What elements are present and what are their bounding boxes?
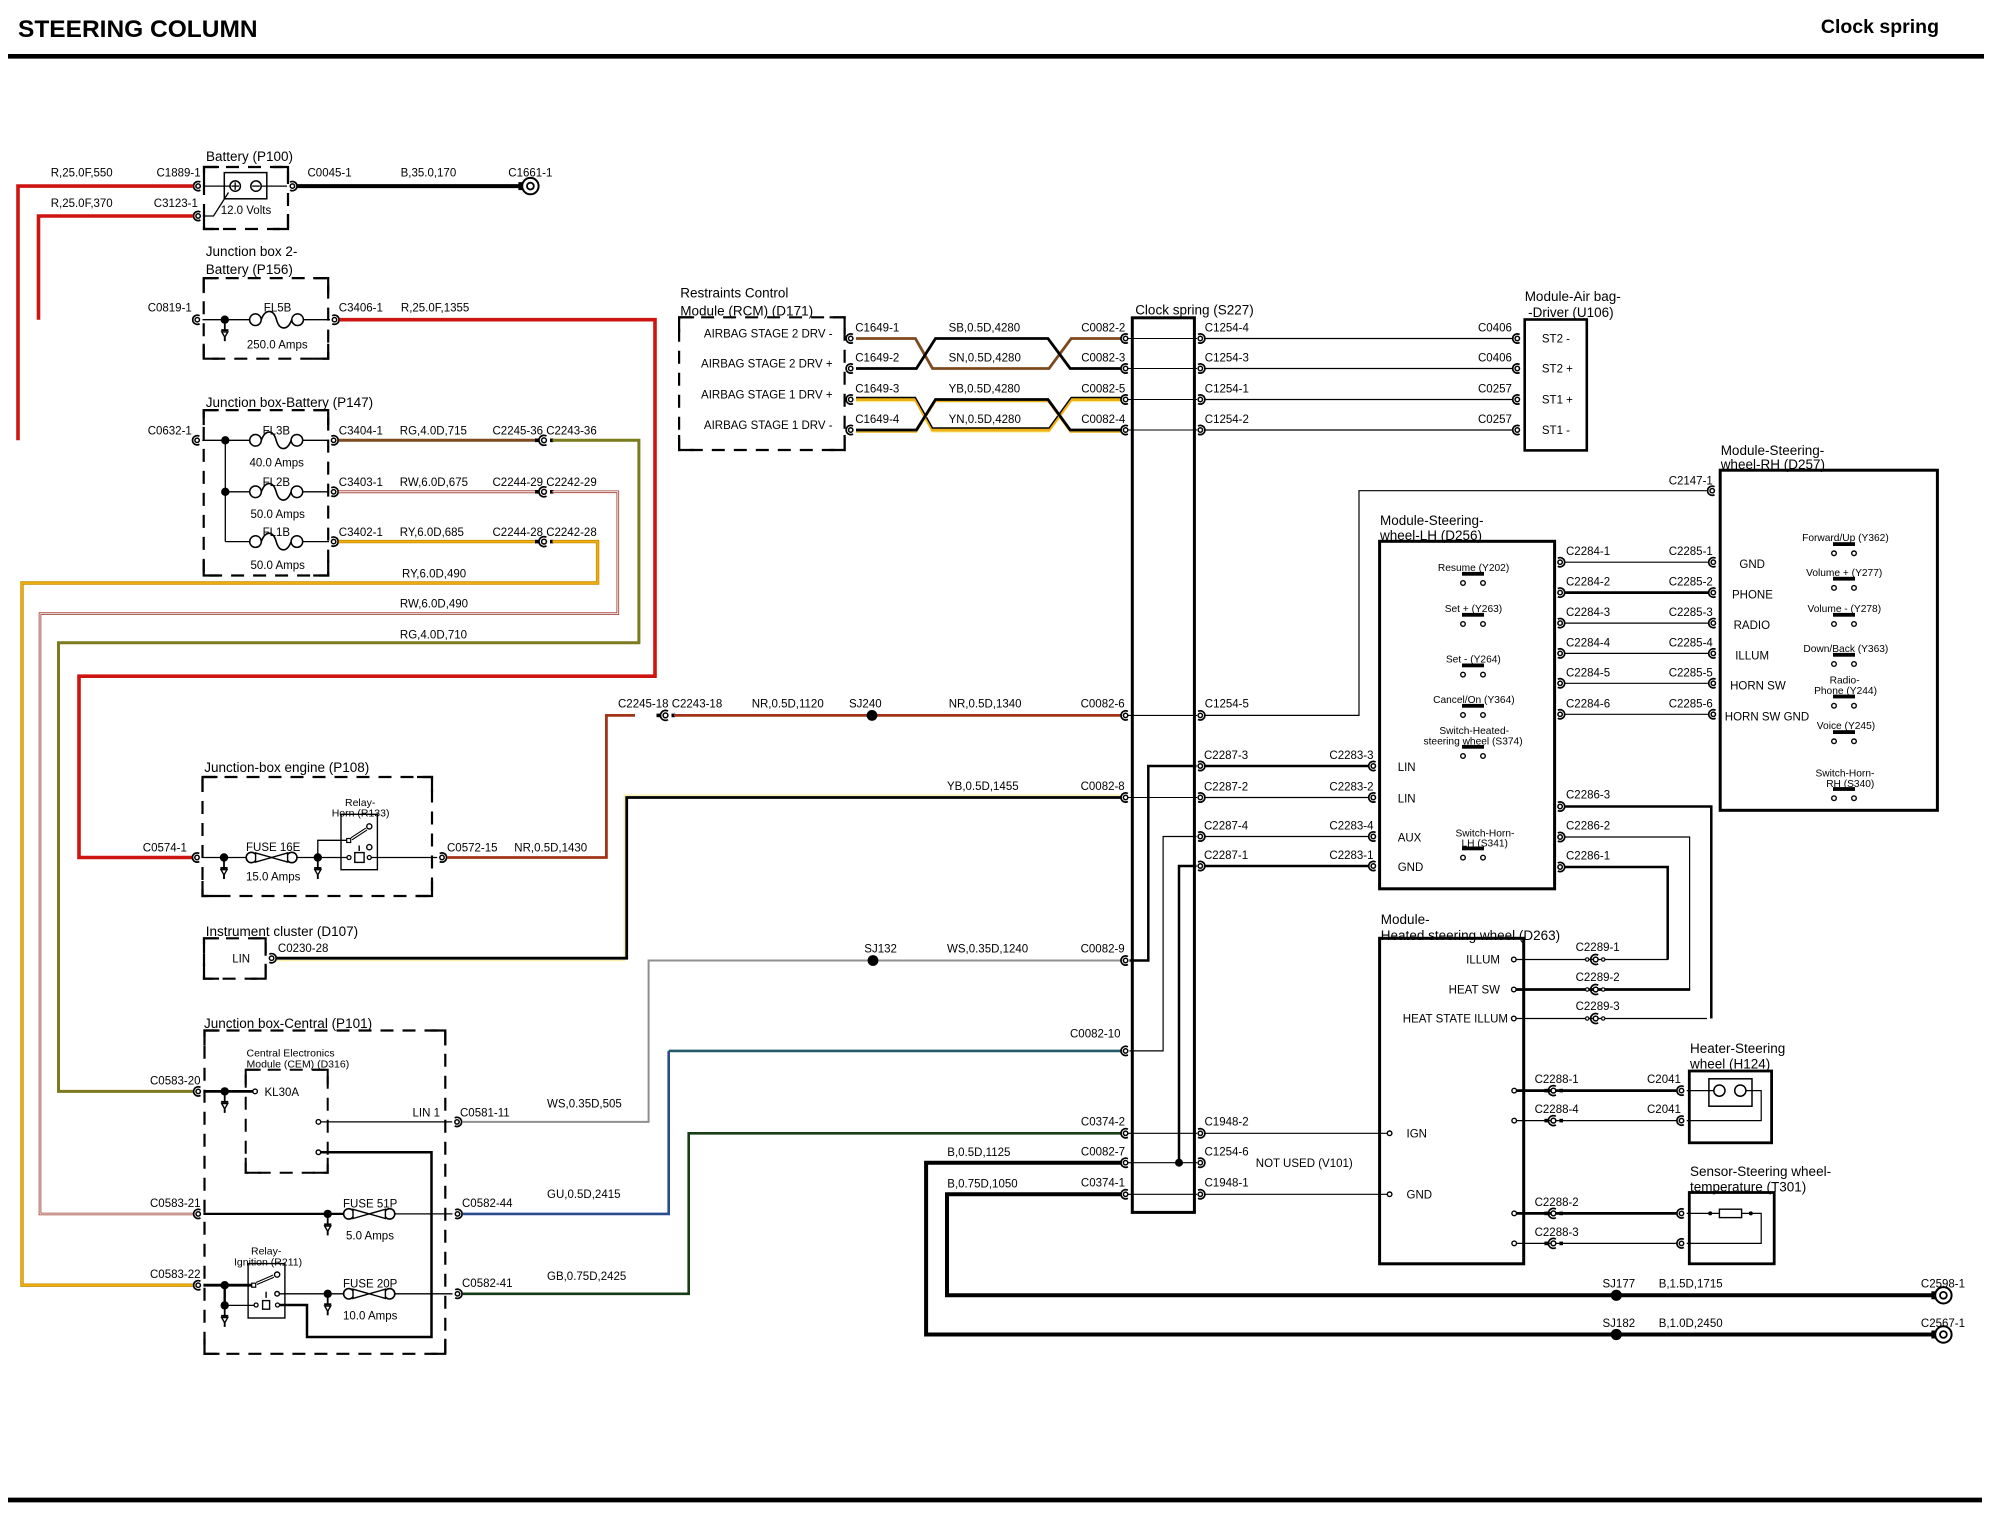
wire C1948-1 to GND	[1206, 1193, 1388, 1195]
svg-text:C1254-6: C1254-6	[1205, 1147, 1249, 1159]
connector C2284-4	[1558, 651, 1562, 655]
module D257 box	[1720, 470, 1937, 810]
inline connector C2289-2	[1586, 988, 1589, 991]
svg-text:C0082-9: C0082-9	[1081, 944, 1125, 956]
svg-text:HORN SW GND: HORN SW GND	[1725, 711, 1809, 723]
wire B,0.75D,1050 to SJ177	[947, 1194, 1932, 1295]
wire RG,4.0D,710 olive loop to C0583-20	[59, 440, 639, 1091]
wire R,25.0F,1355	[79, 320, 655, 858]
svg-text:AUX: AUX	[1398, 833, 1422, 845]
svg-text:NR,0.5D,1120: NR,0.5D,1120	[752, 699, 824, 711]
connector C2283-1	[1371, 864, 1375, 868]
svg-text:HEAT SW: HEAT SW	[1449, 985, 1500, 997]
wire C2286-2 to heat sw	[1565, 837, 1689, 990]
svg-text:C1254-5: C1254-5	[1205, 699, 1249, 711]
connector C0582-41	[455, 1292, 459, 1296]
relay-ignition R211	[248, 1264, 285, 1318]
connector C2283-2	[1371, 795, 1375, 799]
clock spring internal wire	[1128, 368, 1197, 370]
svg-text:C2288-4: C2288-4	[1535, 1104, 1580, 1116]
connector C2284-1	[1558, 560, 1562, 564]
connector C1649-2	[849, 366, 853, 370]
svg-text:15.0 Amps: 15.0 Amps	[246, 872, 301, 884]
junction box P101 dashed box	[205, 1031, 446, 1354]
svg-text:GND: GND	[1739, 559, 1765, 571]
svg-text:NR,0.5D,1430: NR,0.5D,1430	[514, 843, 587, 855]
svg-text:10.0 Amps: 10.0 Amps	[343, 1311, 398, 1323]
svg-text:Restraints Control: Restraints Control	[680, 286, 788, 301]
junction box P108 dashed box	[203, 777, 433, 896]
splice P147 bus top	[221, 436, 229, 444]
wire C2284-2 to C2285-2	[1565, 591, 1708, 594]
wire C2287-3 to C2283-3	[1206, 765, 1369, 768]
module D256 box	[1380, 541, 1555, 889]
connector C0374-2	[1123, 1131, 1127, 1135]
svg-text:C0082-6: C0082-6	[1081, 699, 1125, 711]
svg-text:Heated steering wheel (D263): Heated steering wheel (D263)	[1381, 928, 1560, 943]
connector C3403-1	[331, 490, 335, 494]
ground after FUSE 16E	[317, 858, 319, 869]
svg-text:LIN: LIN	[1398, 794, 1416, 806]
wire GB,0.75D,2425 green	[463, 1133, 1121, 1294]
connector C2285-5	[1711, 681, 1715, 685]
P147 internal bus	[224, 440, 226, 541]
svg-text:PHONE: PHONE	[1732, 590, 1773, 602]
wire HEAT STATE ILLUM to C2289-3	[1516, 1018, 1707, 1020]
svg-text:C2285-4: C2285-4	[1669, 637, 1714, 649]
wire battery sense C3123-1 to plus	[203, 193, 229, 217]
svg-text:SB,0.5D,4280: SB,0.5D,4280	[949, 323, 1021, 335]
fuse FUSE 16E 15.0 Amps	[246, 852, 256, 862]
svg-text:Module-: Module-	[1381, 912, 1430, 927]
wire C2284-3 to C2285-3	[1565, 622, 1708, 624]
svg-text:B,0.75D,1050: B,0.75D,1050	[947, 1179, 1017, 1191]
svg-text:YN,0.5D,4280: YN,0.5D,4280	[949, 414, 1021, 426]
connector C0082-8	[1123, 795, 1127, 799]
connector C2147-1	[1710, 489, 1714, 493]
connector C1948-1	[1198, 1192, 1202, 1196]
wire YB yellow twisted pair	[856, 402, 1121, 433]
connector C3406-1	[332, 318, 336, 322]
connector C2287-2	[1198, 795, 1202, 799]
svg-text:RADIO: RADIO	[1734, 620, 1770, 632]
svg-text:C0082-3: C0082-3	[1081, 353, 1125, 365]
splice at FUSE 51P	[324, 1210, 332, 1218]
inline connector C2289-1	[1586, 958, 1589, 961]
wire RY,6.0D,685 yellow	[339, 540, 536, 543]
wire C1948-2 to IGN	[1206, 1132, 1388, 1134]
connector C0632-1	[195, 438, 199, 442]
splice before FUSE 16E	[220, 853, 228, 861]
connector C0406	[1515, 336, 1519, 340]
svg-text:C1889-1: C1889-1	[157, 168, 201, 180]
pin KL30A	[253, 1089, 258, 1094]
svg-text:SJ182: SJ182	[1603, 1318, 1636, 1330]
wire FL3B to C3404-1	[303, 439, 329, 441]
svg-text:C2287-2: C2287-2	[1204, 782, 1248, 794]
wire C2287-1 to C2283-1	[1206, 865, 1369, 868]
svg-text:C1649-1: C1649-1	[855, 323, 899, 335]
clock spring internal GND vertical	[1179, 866, 1197, 1163]
svg-text:Module-Steering-: Module-Steering-	[1380, 513, 1484, 528]
connector C0574-1	[195, 855, 199, 859]
wire battery internal minus to C0045-1	[261, 185, 287, 187]
svg-text:C0082-5: C0082-5	[1081, 384, 1125, 396]
wire FL1B to C3402-1	[303, 541, 329, 543]
connector C0082-9	[1123, 958, 1127, 962]
pin to C2288-4	[1512, 1118, 1517, 1123]
connector C2041 pin2	[1679, 1118, 1683, 1122]
svg-text:C2288-3: C2288-3	[1535, 1227, 1579, 1239]
svg-text:AIRBAG STAGE 2 DRV +: AIRBAG STAGE 2 DRV +	[701, 359, 833, 371]
wire SN brown twisted pair	[856, 339, 1121, 369]
svg-text:C0574-1: C0574-1	[143, 843, 187, 855]
svg-text:SJ177: SJ177	[1603, 1279, 1636, 1291]
svg-text:C2289-2: C2289-2	[1576, 972, 1620, 984]
svg-text:C1254-4: C1254-4	[1205, 323, 1250, 335]
fusible link FL5B 250.0 Amps	[250, 314, 262, 326]
wire B,0.5D,1125 to SJ182	[926, 1163, 1931, 1335]
svg-text:C2286-3: C2286-3	[1566, 790, 1610, 802]
svg-text:C0583-22: C0583-22	[150, 1269, 201, 1281]
svg-text:C2245-18 C2243-18: C2245-18 C2243-18	[618, 699, 722, 711]
svg-text:GU,0.5D,2415: GU,0.5D,2415	[547, 1189, 621, 1201]
connector T301 pin2	[1679, 1241, 1683, 1245]
connector C2285-4	[1711, 651, 1715, 655]
inline connector C2289-3	[1586, 1017, 1589, 1020]
wire R,25.0F,370	[39, 216, 194, 320]
svg-text:C2289-3: C2289-3	[1576, 1001, 1620, 1013]
wire C2287-4 to C2283-4	[1206, 836, 1369, 838]
svg-text:C2285-3: C2285-3	[1669, 607, 1713, 619]
inline connector C2288-1	[1544, 1089, 1548, 1093]
pin to C2288-2	[1512, 1211, 1517, 1216]
wire C2286-3 to heat state illum	[1565, 807, 1711, 1019]
svg-text:R,25.0F,550: R,25.0F,550	[51, 168, 113, 180]
wire T301 internal loop	[1687, 1213, 1762, 1243]
svg-text:HORN SW: HORN SW	[1730, 680, 1786, 692]
wire C0819-1 to fuse FL5B	[203, 319, 251, 321]
svg-text:C1254-2: C1254-2	[1205, 414, 1249, 426]
wire C0583-20 to KL30A	[203, 1090, 252, 1093]
svg-text:C2287-4: C2287-4	[1204, 821, 1249, 833]
splice at C0583-22	[221, 1281, 229, 1289]
svg-text:ST2 +: ST2 +	[1542, 364, 1573, 376]
ground at FUSE 20P	[327, 1294, 329, 1305]
svg-text:ST1 -: ST1 -	[1542, 425, 1570, 437]
splice at FUSE 20P	[324, 1290, 332, 1298]
wire FUSE 16E to relay	[297, 857, 347, 859]
connector C0082-7	[1123, 1161, 1127, 1165]
ring terminal C2567-1	[1931, 1331, 1937, 1339]
connector C0082-10	[1123, 1049, 1127, 1053]
ground at C0583-20	[224, 1091, 226, 1102]
wire GU,0.5D,2415 blue	[463, 1051, 669, 1214]
svg-text:C2041: C2041	[1647, 1104, 1681, 1116]
svg-text:C2567-1: C2567-1	[1921, 1318, 1965, 1330]
fuse FUSE 20P 10.0 Amps	[344, 1289, 354, 1299]
svg-text:WS,0.35D,505: WS,0.35D,505	[547, 1099, 622, 1111]
pin to C2288-3	[1512, 1241, 1517, 1246]
clock spring internal wire	[1128, 1132, 1197, 1134]
svg-text:C1661-1: C1661-1	[508, 168, 552, 180]
svg-text:RW,6.0D,675: RW,6.0D,675	[400, 477, 468, 489]
wire C2288-3 to T301	[1517, 1242, 1677, 1244]
svg-text:C2245-36 C2243-36: C2245-36 C2243-36	[493, 426, 597, 438]
svg-text:RY,6.0D,685: RY,6.0D,685	[400, 527, 464, 539]
connector C2285-1	[1711, 560, 1715, 564]
svg-text:C1254-3: C1254-3	[1205, 353, 1249, 365]
fusible link FL2B 50.0 Amps	[250, 486, 262, 498]
splice at C1254-6 not used	[1175, 1159, 1183, 1167]
svg-text:C0819-1: C0819-1	[148, 303, 192, 315]
svg-text:C0257: C0257	[1478, 384, 1512, 396]
wire RW,6.0D,675	[339, 490, 536, 493]
connector C1254-2	[1198, 428, 1202, 432]
connector C2284-5	[1558, 681, 1562, 685]
connector C2284-2	[1558, 590, 1562, 594]
svg-text:B,1.0D,2450: B,1.0D,2450	[1659, 1318, 1723, 1330]
svg-text:C0583-20: C0583-20	[150, 1076, 201, 1088]
wire FUSE 20P to C0582-41	[395, 1293, 453, 1295]
svg-text:ST2 -: ST2 -	[1542, 334, 1570, 346]
connector C2287-3	[1198, 764, 1202, 768]
connector C0583-22	[196, 1283, 200, 1287]
connector C0582-44	[455, 1212, 459, 1216]
connector C2284-3	[1558, 621, 1562, 625]
ground below relay splice	[224, 1305, 226, 1316]
connector C2285-3	[1711, 621, 1715, 625]
svg-text:C0082-7: C0082-7	[1081, 1147, 1125, 1159]
wire battery internal plus	[203, 185, 230, 187]
connector C2285-6	[1711, 712, 1715, 716]
connector C0230-28	[269, 956, 273, 960]
svg-text:C2283-2: C2283-2	[1329, 782, 1373, 794]
clock spring internal LIN vertical	[1130, 766, 1197, 961]
splice P147 bus middle	[221, 488, 229, 496]
pin GND of D263	[1387, 1192, 1392, 1197]
wire C2288-1 to C2041	[1517, 1089, 1677, 1092]
svg-text:C0581-11: C0581-11	[460, 1108, 510, 1120]
heater element H124	[1709, 1079, 1752, 1106]
svg-text:C0406: C0406	[1478, 353, 1512, 365]
fuse FUSE 51P 5.0 Amps	[344, 1209, 354, 1219]
fusible link FL1B 50.0 Amps	[250, 536, 262, 548]
sensor T301 box	[1689, 1193, 1774, 1264]
svg-text:C2288-1: C2288-1	[1535, 1074, 1579, 1086]
svg-text:C0632-1: C0632-1	[148, 426, 192, 438]
splice at relay coil row	[221, 1301, 229, 1309]
svg-text:C0045-1: C0045-1	[308, 168, 352, 180]
splice SJ132	[868, 955, 879, 966]
wire C0583-21 to FUSE 51P	[203, 1213, 345, 1215]
wire HEAT SW to C2289-2	[1516, 988, 1690, 991]
svg-text:AIRBAG STAGE 1 DRV +: AIRBAG STAGE 1 DRV +	[701, 390, 833, 402]
connector C3402-1	[331, 539, 335, 543]
svg-text:FUSE 16E: FUSE 16E	[246, 842, 301, 854]
wire C2284-4 to C2285-4	[1565, 652, 1708, 654]
wire C2287-2 to C2283-2	[1206, 797, 1369, 799]
svg-text:Sensor-Steering wheel-: Sensor-Steering wheel-	[1690, 1164, 1831, 1179]
wire C2288-4 to C2041	[1517, 1120, 1677, 1122]
ground in P156	[224, 320, 226, 331]
svg-text:5.0 Amps: 5.0 Amps	[346, 1231, 394, 1243]
svg-text:C0374-1: C0374-1	[1081, 1178, 1125, 1190]
svg-text:WS,0.35D,1240: WS,0.35D,1240	[947, 944, 1028, 956]
wire YN black twisted pair	[856, 402, 1121, 433]
wire C2286-1 to illum	[1565, 867, 1667, 960]
connector C2285-2	[1711, 590, 1715, 594]
svg-text:LIN 1: LIN 1	[413, 1108, 441, 1120]
svg-text:Module-Air bag-: Module-Air bag-	[1525, 289, 1621, 304]
svg-text:FL5B: FL5B	[264, 303, 292, 315]
clock spring internal wire	[1128, 714, 1197, 716]
wire bus to FL2B	[225, 491, 250, 493]
svg-text:SN,0.5D,4280: SN,0.5D,4280	[949, 353, 1021, 365]
svg-text:C2041: C2041	[1647, 1074, 1681, 1086]
svg-text:GB,0.75D,2425: GB,0.75D,2425	[547, 1271, 626, 1283]
svg-text:Junction box-Battery (P147): Junction box-Battery (P147)	[206, 395, 373, 410]
pin HEAT SW	[1512, 987, 1517, 992]
svg-text:RW,6.0D,490: RW,6.0D,490	[400, 599, 468, 611]
connector C2286-2	[1558, 835, 1562, 839]
connector C0082-4	[1123, 428, 1127, 432]
svg-text:wheel (H124): wheel (H124)	[1689, 1057, 1770, 1072]
clock spring S227 box	[1132, 318, 1194, 1213]
wire FUSE 51P to C0582-44	[395, 1213, 453, 1215]
svg-text:C2287-3: C2287-3	[1204, 750, 1248, 762]
svg-text:C0406: C0406	[1478, 323, 1512, 335]
connector C0082-3	[1123, 366, 1127, 370]
wire SB black twisted pair	[856, 339, 1121, 369]
wire C2284-1 to C2285-1	[1565, 561, 1708, 563]
battery P100 dashed box	[204, 167, 288, 229]
inline connector C2288-2	[1544, 1212, 1548, 1216]
svg-text:C2284-5: C2284-5	[1566, 667, 1610, 679]
wire B,35.0,170	[297, 184, 522, 188]
svg-text:SJ240: SJ240	[849, 699, 882, 711]
svg-text:R,25.0F,1355: R,25.0F,1355	[401, 303, 469, 315]
svg-text:Battery (P100): Battery (P100)	[206, 149, 293, 164]
connector C2287-4	[1198, 834, 1202, 838]
svg-text:FL3B: FL3B	[263, 426, 291, 438]
inline connector C2288-4	[1544, 1119, 1548, 1123]
inline connector C2244-29 C2242-29	[535, 490, 539, 494]
connector C3123-1	[196, 214, 200, 218]
wire C0574-1 to FUSE 16E	[202, 857, 246, 859]
inline connector C2288-3	[1544, 1242, 1548, 1246]
splice junction P156	[221, 316, 229, 324]
svg-text:C0374-2: C0374-2	[1081, 1117, 1125, 1129]
connector C1889-1	[196, 184, 200, 188]
svg-text:C3123-1: C3123-1	[154, 198, 198, 210]
connector C0572-15	[440, 855, 444, 859]
svg-text:C2287-1: C2287-1	[1204, 850, 1248, 862]
svg-text:LIN: LIN	[232, 954, 250, 966]
svg-text:AIRBAG STAGE 1 DRV -: AIRBAG STAGE 1 DRV -	[704, 420, 833, 432]
connector C0257	[1515, 397, 1519, 401]
connector C1649-4	[849, 428, 853, 432]
wire RW,6.0D,490 loop to C0583-21	[40, 492, 618, 1214]
splice SJ182	[1611, 1329, 1622, 1340]
wire C0583-22 to relay switch	[203, 1284, 251, 1287]
wire WS,0.35D,505 gray	[462, 961, 1121, 1122]
svg-text:YB,0.5D,1455: YB,0.5D,1455	[947, 781, 1019, 793]
splice at C0583-20	[221, 1087, 229, 1095]
wire C0632-1 to FL3B	[202, 439, 250, 441]
connector C1254-1	[1198, 397, 1202, 401]
wire to relay switch R133	[318, 840, 347, 857]
connector C0406	[1515, 366, 1519, 370]
ground at FUSE 51P	[327, 1214, 329, 1225]
svg-text:250.0 Amps: 250.0 Amps	[247, 340, 308, 352]
connector C0082-6	[1123, 713, 1127, 717]
wire relay to C0572-15	[371, 857, 437, 859]
wire FL2B to C3403-1	[303, 491, 329, 493]
connector C3404-1	[331, 438, 335, 442]
svg-text:C2285-5: C2285-5	[1669, 667, 1713, 679]
svg-text:C0082-2: C0082-2	[1081, 323, 1125, 335]
svg-text:HEAT STATE ILLUM: HEAT STATE ILLUM	[1403, 1014, 1508, 1026]
svg-text:IGN: IGN	[1407, 1129, 1427, 1141]
svg-text:C2283-1: C2283-1	[1329, 850, 1373, 862]
wire CEM pin2 loop to relay coil	[280, 1152, 432, 1337]
svg-text:C2244-28 C2242-28: C2244-28 C2242-28	[493, 527, 597, 539]
svg-text:C1649-3: C1649-3	[855, 384, 899, 396]
ground at FUSE 16E input	[223, 858, 225, 869]
svg-text:C2284-2: C2284-2	[1566, 577, 1610, 589]
svg-text:C0082-4: C0082-4	[1081, 414, 1126, 426]
svg-text:50.0 Amps: 50.0 Amps	[251, 560, 306, 572]
svg-text:C2284-1: C2284-1	[1566, 546, 1610, 558]
splice SJ177	[1611, 1290, 1622, 1301]
svg-text:50.0 Amps: 50.0 Amps	[251, 509, 306, 521]
pin ILLUM	[1512, 957, 1517, 962]
pin HEAT STATE ILLUM	[1512, 1016, 1517, 1021]
wire bus to FL1B	[225, 541, 250, 543]
connector C0082-5	[1123, 397, 1127, 401]
connector C0581-11	[455, 1120, 459, 1124]
svg-text:C3402-1: C3402-1	[339, 527, 383, 539]
connector C0583-21	[196, 1212, 200, 1216]
svg-text:C0082-10: C0082-10	[1070, 1029, 1121, 1041]
svg-text:C0230-28: C0230-28	[278, 943, 329, 955]
wire C1254 to U106	[1206, 338, 1513, 340]
wire C1254 to U106	[1206, 368, 1513, 370]
svg-text:C0582-44: C0582-44	[462, 1198, 513, 1210]
svg-text:KL30A: KL30A	[265, 1087, 300, 1099]
wire NR,0.5D,1430	[447, 715, 635, 857]
svg-text:C2285-1: C2285-1	[1669, 546, 1713, 558]
svg-text:-Driver (U106): -Driver (U106)	[1528, 305, 1614, 320]
heater H124 box	[1689, 1071, 1771, 1143]
svg-text:C0257: C0257	[1478, 414, 1512, 426]
svg-text:C2285-2: C2285-2	[1669, 577, 1713, 589]
wire LIN 1 to C0581-11	[321, 1121, 453, 1123]
connector T301 pin1	[1679, 1211, 1683, 1215]
connector C1649-3	[849, 397, 853, 401]
junction box P147 dashed box	[204, 410, 329, 575]
svg-text:RG,4.0D,715: RG,4.0D,715	[400, 426, 467, 438]
inline connector C2245-18 C2243-18	[657, 714, 661, 718]
svg-text:FUSE 20P: FUSE 20P	[343, 1278, 398, 1290]
clock spring internal wire	[1128, 338, 1197, 340]
wire ILLUM to C2289-1	[1516, 959, 1668, 961]
svg-text:Battery (P156): Battery (P156)	[206, 262, 293, 277]
clock spring internal wire	[1128, 1193, 1197, 1195]
connector C0045-1	[290, 184, 294, 188]
connector C1649-1	[849, 336, 853, 340]
